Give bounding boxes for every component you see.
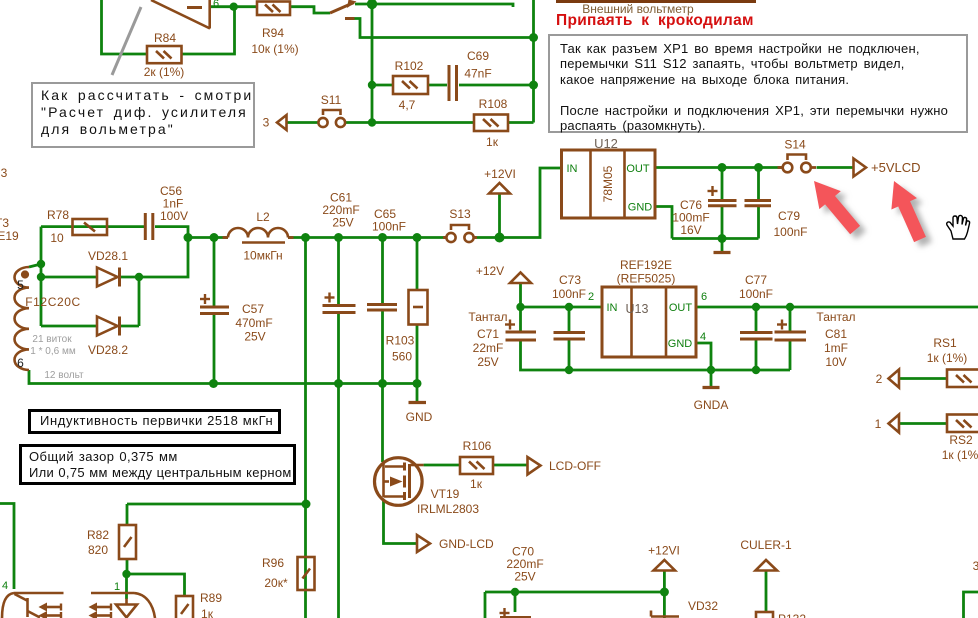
svg-text:C79: C79	[778, 209, 800, 223]
svg-text:IN: IN	[567, 163, 578, 175]
svg-text:R89: R89	[200, 591, 222, 605]
svg-text:RS2: RS2	[949, 433, 973, 447]
svg-text:+12V: +12V	[476, 264, 504, 278]
svg-text:100nF: 100nF	[552, 287, 586, 301]
svg-text:6: 6	[701, 291, 707, 303]
svg-text:C71: C71	[477, 327, 499, 341]
svg-text:25V: 25V	[332, 216, 353, 230]
svg-text:10V: 10V	[825, 355, 846, 369]
svg-text:U12: U12	[594, 136, 618, 151]
svg-text:20к*: 20к*	[264, 576, 288, 590]
svg-text:U13: U13	[626, 302, 649, 316]
svg-text:+12VI: +12VI	[484, 167, 516, 181]
svg-text:+5VLCD: +5VLCD	[871, 160, 921, 175]
svg-text:6: 6	[213, 0, 219, 10]
svg-text:Тантал: Тантал	[816, 310, 855, 324]
svg-text:100nF: 100nF	[372, 220, 406, 234]
svg-text:LCD-OFF: LCD-OFF	[549, 459, 601, 473]
svg-text:4,7: 4,7	[399, 98, 416, 112]
svg-text:IRLML2803: IRLML2803	[417, 502, 479, 516]
svg-text:3: 3	[973, 559, 978, 573]
svg-text:R78: R78	[47, 208, 69, 222]
svg-text:C73: C73	[559, 273, 581, 287]
svg-text:GND: GND	[668, 338, 693, 350]
svg-text:GND: GND	[406, 410, 433, 424]
svg-text:Р132: Р132	[778, 612, 806, 618]
svg-text:VD28.1: VD28.1	[88, 249, 128, 263]
svg-text:REF192E: REF192E	[620, 258, 672, 272]
svg-text:Е19: Е19	[0, 229, 19, 243]
svg-text:S14: S14	[784, 138, 806, 152]
svg-text:1: 1	[875, 417, 882, 431]
svg-text:CULER-1: CULER-1	[740, 538, 792, 552]
svg-text:47nF: 47nF	[464, 67, 491, 81]
svg-text:10к (1%): 10к (1%)	[251, 42, 298, 56]
svg-text:1к: 1к	[486, 135, 499, 149]
svg-text:R94: R94	[262, 26, 284, 40]
svg-text:560: 560	[392, 350, 412, 364]
svg-text:C77: C77	[745, 273, 767, 287]
svg-text:3: 3	[1, 166, 8, 180]
svg-text:L2: L2	[256, 210, 270, 224]
svg-text:VT19: VT19	[431, 487, 460, 501]
svg-text:GND-LCD: GND-LCD	[439, 537, 494, 551]
svg-text:1к (1%): 1к (1%)	[942, 448, 978, 462]
svg-text:1к: 1к	[470, 477, 483, 491]
svg-text:OUT: OUT	[626, 163, 650, 175]
svg-text:VD28.2: VD28.2	[88, 343, 128, 357]
svg-text:100V: 100V	[160, 209, 188, 223]
svg-text:25V: 25V	[244, 330, 265, 344]
svg-text:OUT: OUT	[669, 302, 693, 314]
svg-text:21 виток: 21 виток	[32, 334, 72, 345]
svg-text:3: 3	[263, 116, 270, 130]
svg-text:2: 2	[876, 372, 883, 386]
svg-text:5: 5	[17, 278, 24, 292]
svg-text:4: 4	[2, 580, 8, 592]
svg-text:1к: 1к	[201, 607, 214, 618]
svg-text:10: 10	[50, 231, 64, 245]
svg-text:4: 4	[700, 331, 706, 343]
svg-text:RS1: RS1	[933, 336, 957, 350]
svg-text:R82: R82	[87, 528, 109, 542]
svg-text:1 * 0,6 мм: 1 * 0,6 мм	[30, 346, 76, 357]
svg-text:820: 820	[88, 543, 108, 557]
svg-text:GND: GND	[628, 202, 653, 214]
svg-text:2к (1%): 2к (1%)	[144, 65, 185, 79]
svg-text:(REF5025): (REF5025)	[617, 272, 676, 286]
svg-text:R84: R84	[154, 31, 176, 45]
svg-text:S13: S13	[449, 207, 471, 221]
svg-text:R108: R108	[479, 97, 508, 111]
svg-text:R96: R96	[262, 556, 284, 570]
svg-text:+12VI: +12VI	[648, 544, 680, 558]
svg-text:22mF: 22mF	[473, 341, 504, 355]
svg-text:100nF: 100nF	[773, 225, 807, 239]
svg-text:IN: IN	[607, 302, 618, 314]
svg-text:1к (1%): 1к (1%)	[927, 351, 968, 365]
svg-text:1mF: 1mF	[824, 341, 848, 355]
svg-text:C81: C81	[825, 327, 847, 341]
svg-text:R103: R103	[386, 334, 415, 348]
svg-text:1: 1	[114, 581, 120, 593]
svg-text:2: 2	[588, 291, 594, 303]
svg-text:100nF: 100nF	[739, 287, 773, 301]
svg-text:25V: 25V	[514, 570, 535, 584]
svg-text:GNDA: GNDA	[694, 398, 729, 412]
svg-text:16V: 16V	[680, 223, 701, 237]
svg-text:Тантал: Тантал	[468, 310, 507, 324]
svg-text:12 вольт: 12 вольт	[44, 370, 84, 381]
svg-text:25V: 25V	[477, 355, 498, 369]
svg-text:10мкГн: 10мкГн	[243, 249, 282, 263]
svg-text:470mF: 470mF	[235, 316, 272, 330]
svg-text:Т3: Т3	[0, 216, 9, 230]
svg-text:78M05: 78M05	[601, 165, 615, 202]
svg-text:R102: R102	[395, 59, 424, 73]
svg-text:VD32: VD32	[688, 599, 718, 613]
svg-text:R106: R106	[463, 439, 492, 453]
svg-text:C69: C69	[467, 49, 489, 63]
svg-text:C57: C57	[242, 302, 264, 316]
svg-text:S11: S11	[321, 93, 342, 107]
svg-text:F12C20C: F12C20C	[25, 295, 81, 309]
svg-text:6: 6	[17, 356, 24, 370]
